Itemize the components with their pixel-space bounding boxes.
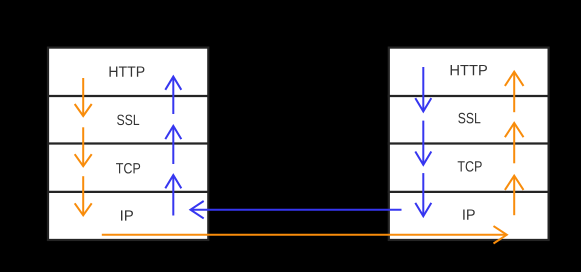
left orange down arrow 3: [75, 176, 92, 215]
left divider TCP/IP: [47, 191, 210, 193]
left host stack box: [48, 48, 208, 240]
left blue up arrow 1: [165, 77, 181, 114]
left label SSL: [117, 115, 139, 126]
right divider SSL/TCP: [388, 142, 550, 144]
left orange down arrow 1: [75, 78, 92, 116]
right orange up arrow 3: [505, 176, 524, 216]
right blue down arrow 2: [415, 121, 431, 165]
left divider SSL/TCP: [47, 142, 210, 144]
blue response wire (right IP to left IP): [191, 201, 402, 218]
right label SSL: [458, 113, 480, 124]
right label IP: [463, 209, 475, 219]
left orange down arrow 2: [75, 127, 92, 166]
left blue up arrow 3: [165, 175, 181, 215]
right label HTTP: [451, 65, 487, 75]
right label TCP: [458, 161, 482, 172]
left blue up arrow 2: [165, 126, 181, 164]
left divider HTTP/SSL: [47, 95, 210, 97]
right divider TCP/IP: [388, 191, 550, 193]
orange request wire (left IP to right IP): [102, 226, 507, 243]
right blue down arrow 3: [415, 173, 431, 216]
right host stack box: [389, 48, 549, 240]
left label HTTP: [109, 66, 144, 76]
right orange up arrow 2: [505, 123, 524, 163]
left label IP: [121, 210, 133, 220]
right orange up arrow 1: [505, 72, 524, 113]
left label TCP: [116, 163, 140, 174]
right blue down arrow 1: [415, 67, 431, 111]
right divider HTTP/SSL: [388, 95, 550, 97]
